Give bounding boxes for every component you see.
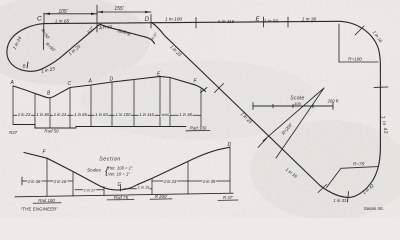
tick: point E [263, 17, 265, 27]
wire: top main line C to curve [44, 21, 340, 23]
wire: right vertical straight [379, 66, 381, 148]
svg-text:1 in 38: 1 in 38 [302, 17, 317, 23]
ordinate x134 [133, 80, 135, 127]
svg-text:1 in 38: 1 in 38 [36, 112, 49, 117]
svg-text:1 in 65: 1 in 65 [55, 19, 70, 25]
svg-text:A: A [10, 80, 15, 86]
Rad 100 underline (section 1) [186, 130, 210, 132]
svg-text:“THE ENGINEER”: “THE ENGINEER” [21, 207, 59, 212]
svg-text:1 in 24: 1 in 24 [54, 112, 67, 117]
R=100 radius leader horizontal [339, 61, 378, 63]
arrowhead: 155 left [98, 11, 104, 14]
section 2 dim line 1in19 [124, 188, 152, 190]
arrowhead: 105 left [45, 13, 51, 16]
wire: loop exit diagonal to junction A [60, 24, 100, 58]
ordinate x70 [69, 88, 71, 129]
SECTION 2 (lower) profile line [24, 147, 230, 190]
svg-text:100: 100 [294, 101, 301, 106]
section 1 datum bars [13, 125, 186, 129]
svg-text:1 in 35: 1 in 35 [203, 179, 216, 184]
svg-text:Swain Sc.: Swain Sc. [364, 206, 384, 211]
svg-text:1 in 116: 1 in 116 [218, 19, 235, 25]
svg-text:R37: R37 [9, 130, 18, 135]
svg-text:1 in 60: 1 in 60 [99, 25, 113, 30]
section 2 dim line 1in17 [75, 189, 104, 191]
ordinate x104 [103, 187, 105, 196]
R 37 underline [218, 199, 238, 201]
svg-text:155′: 155′ [114, 6, 124, 12]
section 2 datum baseline [15, 193, 233, 197]
svg-text:Rad 75: Rad 75 [114, 195, 129, 200]
SECTION 1 (upper) profile line [13, 77, 206, 98]
dimension line 155 [97, 11, 151, 13]
svg-text:1 in 83: 1 in 83 [95, 112, 108, 117]
wire: siding line 1 in 60 [100, 24, 155, 43]
ordinate x188 [187, 161, 189, 193]
ordinate x160 [159, 77, 161, 127]
tick: on top-right curve [355, 26, 364, 35]
svg-text:R 37′: R 37′ [223, 195, 233, 200]
section 2 right dimension line [152, 180, 230, 182]
svg-text:1 in 23: 1 in 23 [18, 112, 31, 117]
scale bar mid ticks [273, 104, 313, 107]
R=75 leader pointer [327, 168, 342, 187]
Rad 75 underline [107, 199, 134, 201]
tick: point C [43, 13, 45, 24]
section 2 left dimension line [22, 180, 73, 182]
ordinate x201 [200, 89, 202, 127]
ordinate x50 [49, 98, 51, 128]
svg-text:R=75′: R=75′ [353, 162, 365, 167]
svg-text:1 in 116: 1 in 116 [139, 112, 154, 117]
svg-text:Scales: Scales [87, 168, 101, 173]
wire: balloon loop R=50 [7, 24, 60, 72]
svg-text:D: D [145, 16, 150, 23]
arrowhead: 155 right [145, 11, 151, 14]
ordinate x230 [229, 147, 231, 193]
tick: bottom loop lowest point [348, 192, 349, 203]
ordinate x152 [151, 178, 153, 194]
tick: gradient break x288 [287, 17, 289, 27]
ordinate x73 [72, 172, 74, 197]
ordinate x112 [111, 82, 113, 127]
tick: junction A vertical [96, 5, 98, 32]
svg-text:C: C [68, 81, 72, 87]
wire: loop radius line [43, 24, 45, 50]
svg-text:1 in 56: 1 in 56 [264, 19, 279, 25]
tick: gradient break x196 [195, 18, 197, 29]
tick: point D [150, 15, 152, 29]
svg-text:Hor. 100 = 1″: Hor. 100 = 1″ [108, 166, 133, 171]
ordinate x170 [169, 78, 171, 127]
scale bar [253, 105, 333, 107]
svg-text:1 in 16: 1 in 16 [54, 179, 67, 184]
Rad 100 underline (section 2) [33, 202, 61, 204]
svg-text:Rad 100: Rad 100 [190, 126, 207, 131]
R=200 leader line 2 [276, 88, 324, 158]
svg-text:Section: Section [99, 157, 121, 163]
ordinate x13 [12, 86, 14, 125]
tick: diagonal at x322 [318, 185, 327, 193]
svg-text:D: D [110, 77, 114, 83]
tick: right vertical line [374, 86, 388, 88]
arrowhead: 105 right [91, 13, 97, 16]
dimension line 105 [44, 13, 97, 15]
svg-text:1 in 36: 1 in 36 [28, 179, 41, 184]
tick: left end section 2 dims [21, 177, 23, 185]
R 200 underline [150, 198, 172, 200]
R=75 leader underline [341, 167, 378, 169]
R=200 leader line 1 [263, 88, 324, 141]
tick: diagonal at x262 [258, 139, 267, 148]
ordinate x91 [90, 85, 92, 127]
svg-text:105′: 105′ [58, 9, 68, 15]
tick: loop point B [27, 62, 28, 68]
ordinate x47 (F) [46, 158, 48, 196]
svg-text:D: D [228, 142, 232, 148]
tick: diagonal at x219 [215, 84, 224, 93]
svg-text:R 200′: R 200′ [155, 194, 168, 199]
svg-text:C: C [37, 16, 42, 23]
svg-text:200 f t: 200 f t [327, 99, 340, 104]
svg-text:1 in 23: 1 in 23 [164, 179, 177, 184]
svg-text:1in56: 1in56 [161, 113, 169, 117]
wire: top-right corner curve R=100 [340, 21, 380, 66]
svg-text:1 in 100: 1 in 100 [116, 112, 132, 117]
tick: end of section 1 profile [201, 88, 208, 93]
scale bar end tick left [252, 103, 254, 110]
svg-text:A: A [88, 79, 93, 85]
ordinate x35 [34, 94, 36, 129]
svg-text:G: G [118, 182, 122, 188]
svg-text:B: B [23, 64, 26, 69]
svg-text:1 in 38: 1 in 38 [179, 112, 192, 117]
svg-text:1 in 65: 1 in 65 [74, 112, 87, 117]
tick: point G [120, 186, 122, 191]
svg-text:Rad 100: Rad 100 [38, 198, 55, 203]
section 1 dimension line [13, 114, 201, 116]
wire: bottom-right loop curve R=75 [320, 148, 380, 197]
svg-text:1 in 31: 1 in 31 [333, 198, 347, 203]
wire: main descending diagonal 1 in 23 [152, 23, 320, 186]
scale bar end tick right [332, 103, 334, 110]
R=100 radius leader vertical [338, 24, 340, 62]
svg-text:1 in 100: 1 in 100 [165, 17, 182, 23]
svg-text:Ver. 10 = 1″: Ver. 10 = 1″ [108, 172, 130, 177]
svg-text:R=100: R=100 [348, 57, 362, 62]
svg-text:Rad 50: Rad 50 [44, 129, 59, 134]
svg-text:1 in 17: 1 in 17 [84, 188, 96, 192]
svg-text:1 in 19: 1 in 19 [138, 186, 150, 190]
